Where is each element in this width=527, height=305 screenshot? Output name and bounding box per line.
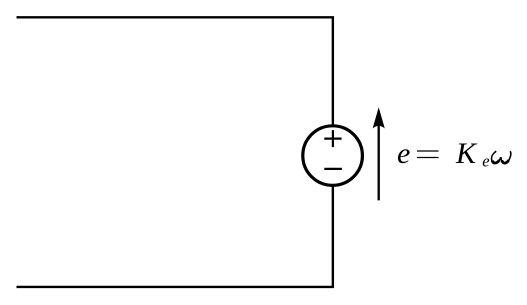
svg-text:K: K: [455, 137, 478, 170]
svg-text:e: e: [482, 151, 489, 170]
svg-text:e: e: [397, 137, 410, 170]
